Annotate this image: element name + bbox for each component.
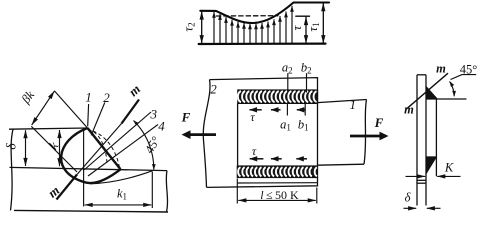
tau dimension	[305, 17, 307, 43]
plate 1 left end	[237, 103, 239, 166]
tau arrows top row	[250, 109, 306, 111]
delta dimension	[25, 130, 27, 166]
svg-text:K: K	[444, 161, 454, 175]
svg-text:τ: τ	[252, 144, 257, 158]
svg-text:4: 4	[158, 119, 165, 134]
beta-k extension	[54, 91, 87, 128]
svg-text:2: 2	[210, 82, 217, 97]
leader a2	[287, 73, 289, 92]
tau1 dimension	[322, 3, 324, 43]
top weld band	[238, 90, 318, 103]
svg-text:τ: τ	[250, 110, 255, 124]
force F left	[182, 130, 217, 139]
top weld fillet	[426, 87, 437, 99]
delta dimension	[404, 207, 417, 209]
svg-text:45°: 45°	[460, 63, 478, 77]
m-m section line	[406, 73, 448, 109]
dashed fracture arc 2	[93, 131, 119, 167]
K dimension	[406, 175, 426, 177]
throat construction line	[31, 126, 77, 172]
45 arc right	[450, 81, 455, 96]
leader a1	[286, 103, 288, 115]
svg-text:F: F	[374, 115, 384, 130]
lower plate bottom edge	[14, 210, 168, 212]
tau arrows bottom row	[250, 158, 307, 160]
plate 2 outline	[207, 78, 318, 188]
45 leader shelf	[451, 75, 477, 80]
left break edge	[11, 129, 14, 210]
lower cap lines	[416, 179, 426, 181]
fracture arc into plate	[90, 171, 152, 184]
l dimension line	[238, 199, 315, 201]
svg-text:2: 2	[103, 90, 110, 105]
svg-text:1: 1	[349, 97, 356, 112]
leader line 1	[87, 104, 90, 126]
plate 1 bottom edge	[318, 164, 365, 165]
leader b1	[304, 103, 306, 115]
plate 1 top edge	[318, 100, 367, 103]
dashed fracture arc 1	[88, 130, 107, 165]
plate bar	[416, 75, 418, 206]
baseline	[199, 42, 326, 45]
stress curve	[200, 3, 329, 24]
load arrows	[214, 6, 292, 43]
strip bottom end	[426, 156, 436, 158]
force F right	[350, 132, 389, 141]
plate 2 left break edge	[203, 80, 210, 188]
strip right edge	[435, 99, 437, 176]
bottom weld band	[237, 166, 317, 178]
leader b2	[306, 73, 308, 92]
plates interface line	[10, 167, 168, 170]
extension lines for l dimension	[236, 179, 238, 204]
upper plate end face / k1 left extension	[83, 128, 85, 207]
k1 dimension	[85, 204, 152, 206]
leader line 2	[91, 103, 105, 136]
m-m section line	[57, 100, 140, 200]
svg-text:l ≤ 50 K: l ≤ 50 K	[260, 188, 299, 202]
beta-k dimension	[32, 91, 55, 125]
svg-text:m: m	[404, 102, 414, 116]
k dimension	[59, 130, 61, 166]
svg-text:1: 1	[85, 90, 92, 105]
dashed mean level	[217, 15, 279, 17]
tau2 dimension	[201, 12, 203, 44]
svg-text:δ: δ	[405, 191, 411, 205]
svg-text:m: m	[436, 62, 446, 76]
svg-text:3: 3	[150, 107, 158, 122]
strip top surface line	[426, 98, 467, 100]
upper plate top edge	[9, 128, 88, 129]
leader line 3	[84, 112, 151, 170]
leader line 4	[88, 125, 158, 177]
tau mean extension	[296, 15, 310, 17]
weld bead thick outline	[88, 128, 121, 169]
weld toe line under bottom band	[237, 182, 317, 184]
45 degree arc	[134, 121, 154, 170]
plate 1 right break edge	[364, 100, 367, 165]
lower plate right break edge	[166, 171, 167, 212]
svg-text:F: F	[181, 110, 191, 125]
bottom weld fillet	[426, 157, 436, 174]
svg-text:δ: δ	[4, 143, 19, 150]
k1 extension right	[151, 172, 153, 209]
